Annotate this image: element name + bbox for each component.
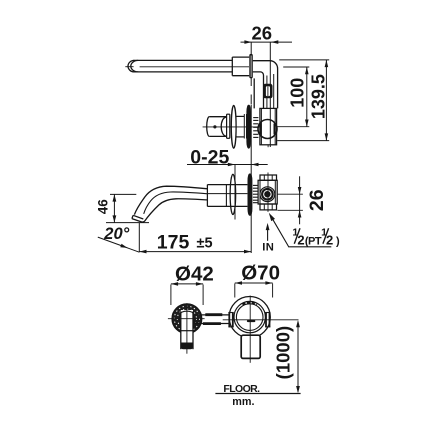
svg-text:20°: 20° [103,225,129,243]
dimension Ø70 [235,281,273,297]
floor line [215,393,300,395]
svg-text:): ) [336,236,340,248]
right connector front [265,313,270,327]
extension line 139.5 top [279,59,329,61]
dimension Ø42 [171,282,203,305]
spout wall adapter block [232,57,249,76]
left connector front [228,313,233,327]
PT label [292,226,340,247]
svg-text:100: 100 [287,78,307,108]
handle grip front [241,335,260,358]
PT leader [269,213,332,247]
curved spout B [132,186,208,222]
handle neck A [227,114,230,138]
dimension 26 line [241,40,293,44]
svg-text:IN: IN [262,241,274,253]
handle lever A [207,117,227,137]
faucet body B [207,185,247,207]
connecting pipe front [195,315,229,324]
supply axis line [269,42,271,147]
svg-text:26: 26 [252,22,273,43]
svg-text:0-25: 0-25 [190,146,229,168]
valve center dash [247,320,255,322]
dimension 175 text [157,231,213,253]
valve centerlines front [249,296,251,363]
ball joint B [260,187,275,202]
spout escutcheon front [172,304,202,334]
supply pipe fitting [263,84,272,99]
extension line 100 top [283,66,309,68]
svg-text:FLOOR.: FLOOR. [223,383,260,395]
svg-text:175: 175 [157,231,190,253]
escutcheon ellipse B [230,174,236,214]
dimension 1000 [296,320,300,393]
extension line 26B bottom [277,209,303,211]
wall flange B [248,174,253,216]
handle centerline [203,126,261,128]
flange sleeve A [236,114,246,139]
valve body block A [260,108,277,147]
dimension 0-25 [187,163,268,220]
dimension 100 [305,67,309,127]
ball joint A [258,120,277,139]
svg-text:139.5: 139.5 [309,74,329,119]
svg-text:(1000): (1000) [273,326,294,379]
top port B [260,175,277,180]
svg-text:Ø70: Ø70 [241,262,280,285]
escutcheon ellipse A [231,105,236,148]
svg-text:±5: ±5 [197,236,213,252]
dimension 175 [139,250,251,254]
valve wall flange A [246,105,251,149]
svg-text:2: 2 [297,232,304,247]
extension line 1000 [223,319,299,321]
valve escutcheon front [229,297,270,338]
spout centerlines front [168,303,205,353]
bellows nipple A [253,118,258,138]
dimension 139.5 [325,60,329,141]
wall face line [250,42,252,253]
dimension 46 [106,194,149,222]
spout wall flange [249,54,253,79]
extension line 139.5 bottom [277,140,329,142]
bottom port B [260,204,277,210]
elbow into wall [253,61,278,109]
extension line 26B top [277,193,303,195]
svg-text:(PT: (PT [305,236,322,248]
valve centerline B [267,173,269,212]
valve block B [258,180,277,204]
spout tube side view [125,60,249,72]
svg-text:2: 2 [326,232,333,247]
handle screw dot [213,125,216,128]
svg-text:26: 26 [306,189,328,211]
angle 20 lines [98,223,140,252]
extension line 100 bottom [277,126,309,128]
svg-text:mm.: mm. [232,396,254,408]
spout tube front [181,310,193,349]
dimension 26B [298,176,302,224]
IN arrow [266,223,270,241]
svg-text:46: 46 [96,199,111,215]
bellows nipple B [253,185,258,202]
svg-text:Ø42: Ø42 [175,262,214,285]
